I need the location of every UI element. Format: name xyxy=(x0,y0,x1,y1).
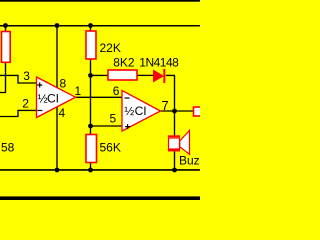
svg-text:½: ½ xyxy=(124,104,134,118)
svg-text:8K2: 8K2 xyxy=(113,56,135,70)
svg-text:56K: 56K xyxy=(100,141,121,155)
svg-text:1N4148: 1N4148 xyxy=(139,56,179,70)
svg-text:3: 3 xyxy=(23,69,30,83)
svg-text:4: 4 xyxy=(59,106,66,120)
svg-text:58: 58 xyxy=(1,141,15,155)
svg-text:2: 2 xyxy=(22,97,29,111)
svg-text:7: 7 xyxy=(162,98,169,113)
svg-text:8: 8 xyxy=(60,77,67,91)
svg-text:CI: CI xyxy=(47,92,59,106)
svg-text:22K: 22K xyxy=(100,41,121,55)
svg-text:6: 6 xyxy=(113,84,120,98)
svg-text:CI: CI xyxy=(135,104,147,118)
svg-text:5: 5 xyxy=(110,112,117,126)
svg-text:1: 1 xyxy=(75,84,82,98)
svg-text:Buzzer: Buzzer xyxy=(179,154,200,168)
